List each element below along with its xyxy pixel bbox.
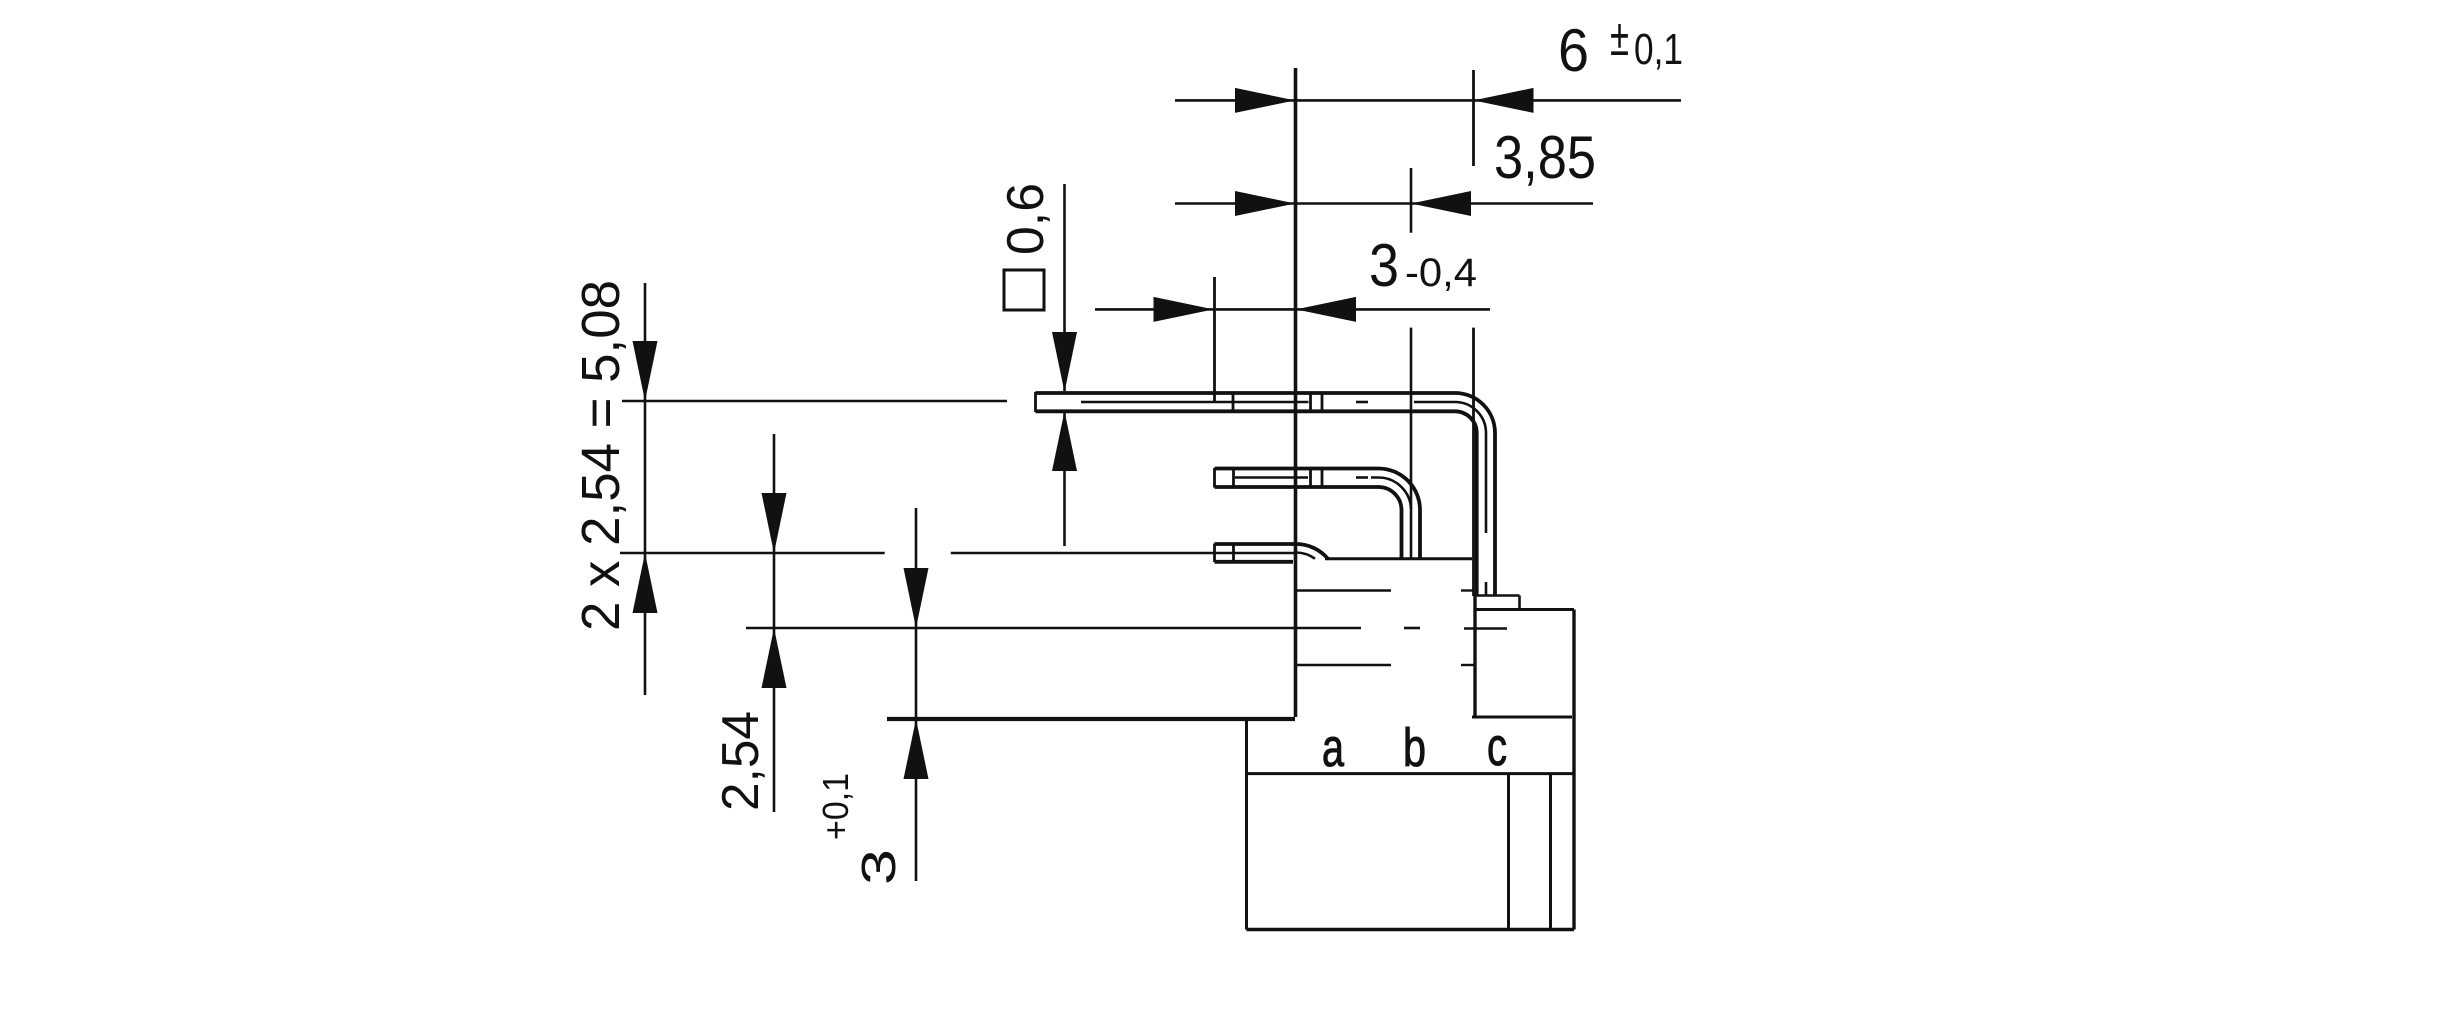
bottom pin end cap [1213, 544, 1216, 563]
arrow V4 down [1052, 332, 1077, 392]
svg-text:+0,1: +0,1 [815, 773, 856, 840]
svg-text:b: b [1403, 718, 1426, 778]
arrow V3 down [904, 568, 929, 628]
middle pin mid dashes [1356, 476, 1368, 479]
letters row bottom line [1247, 772, 1575, 775]
dimension line 3 -0,4 [1095, 308, 1490, 311]
arrow V1 down [633, 341, 658, 401]
body top face line [1325, 557, 1472, 560]
bottom pin bottom edge [1215, 560, 1294, 564]
arrow dim3,85 right [1235, 191, 1295, 216]
svg-text:0,6: 0,6 [997, 183, 1055, 255]
dimension line V2 2,54 [773, 434, 776, 812]
arrow dim3-0,4 left [1296, 297, 1356, 322]
extension line top-pin-centre level (5,08 ref) [622, 400, 1007, 403]
extension line x=1473.5 upper segment [1472, 70, 1475, 166]
extension line x=1214.5 pin-end [1213, 277, 1216, 402]
svg-text:0,1: 0,1 [1634, 25, 1683, 74]
extension line bottom-pin-centre level (left part) [620, 552, 885, 555]
arrow V3 up [904, 719, 929, 779]
svg-text:2,54: 2,54 [712, 711, 770, 811]
extension line bottom-pin-centre level (right part) [951, 552, 1296, 555]
svg-text:±: ± [1610, 9, 1629, 67]
square symbol of 0,6 [1004, 270, 1044, 310]
pedestal top [1475, 594, 1520, 597]
housing bottom edge [1247, 928, 1575, 932]
middle pin top edge and outer bend [1215, 469, 1421, 559]
top pin tick pair [1309, 392, 1312, 412]
top pin tick [1232, 392, 1235, 412]
top pin top edge and outer bend [1036, 393, 1496, 595]
middle pin ticks [1232, 468, 1235, 488]
right block left edge [1473, 596, 1476, 717]
arrow V2 down [762, 493, 787, 553]
cavity tick lower right [1461, 664, 1474, 666]
arrow dim6 right [1235, 88, 1295, 113]
middle pin bottom edge and inner bend [1215, 487, 1402, 558]
cavity hidden line lower [1296, 664, 1391, 666]
dimension line 6 +-0,1 [1175, 99, 1681, 102]
dimension line 3,85 [1175, 202, 1593, 205]
svg-text:3: 3 [1369, 232, 1399, 299]
cavity hidden line upper [1296, 589, 1391, 591]
dimension line V1 2x2,54=5,08 [644, 283, 647, 695]
cavity tick upper right [1461, 589, 1474, 591]
right block bottom edge [1472, 716, 1572, 719]
svg-text:-0,4: -0,4 [1405, 251, 1477, 295]
housing inner vertical 2 [1549, 774, 1552, 930]
right block top edge [1474, 608, 1574, 611]
svg-text:3,85: 3,85 [1494, 124, 1596, 191]
middle pin mid line [1235, 476, 1308, 479]
bottom pin tick [1232, 544, 1235, 563]
extension line x=1473.5 lower segment [1472, 328, 1475, 596]
housing inner vertical 1 [1507, 774, 1510, 930]
svg-text:3: 3 [853, 849, 906, 885]
middle pin mid bend [1371, 478, 1411, 559]
right edge of housing [1572, 610, 1575, 930]
top pin mid bend [1414, 402, 1486, 533]
arrow dim3,85 left [1411, 191, 1471, 216]
centerline row axis y=628 [746, 627, 1361, 630]
top pin mid dash [1356, 401, 1368, 404]
dimension line V4 square 0,6 lower [1063, 411, 1066, 546]
dimension line V3 3+0,1 [915, 508, 918, 881]
top pin bottom edge and inner bend [1036, 411, 1477, 596]
svg-text:2 x 2,54 = 5,08: 2 x 2,54 = 5,08 [571, 280, 631, 631]
centerline dash 3 [1464, 627, 1507, 630]
extension line x=1295 body left face [1294, 68, 1298, 717]
pedestal right edge [1518, 596, 1521, 610]
top pin end cap [1034, 392, 1037, 412]
seating plane thick line [887, 717, 1295, 721]
bottom pin top edge and outer bend [1215, 544, 1328, 559]
bottom pin mid bend [1296, 553, 1315, 559]
extension line x=1411 lower segment [1410, 328, 1413, 509]
housing left edge [1245, 721, 1248, 930]
arrow dim6 left [1474, 88, 1534, 113]
centerline dash 2 [1404, 627, 1420, 630]
svg-text:a: a [1322, 718, 1345, 778]
extension line x=1411 upper segment [1410, 168, 1413, 233]
svg-text:6: 6 [1558, 17, 1589, 84]
middle pin end cap [1213, 468, 1216, 488]
arrow dim3-0,4 right [1154, 297, 1214, 322]
dimension line V4 square 0,6 upper [1063, 184, 1066, 391]
top pin mid stub at pedestal [1485, 582, 1488, 595]
top pin mid line [1081, 401, 1309, 404]
arrow V4 up [1052, 411, 1077, 471]
arrow V1 up [633, 553, 658, 613]
svg-text:c: c [1487, 717, 1507, 777]
arrow V2 up [762, 628, 787, 688]
